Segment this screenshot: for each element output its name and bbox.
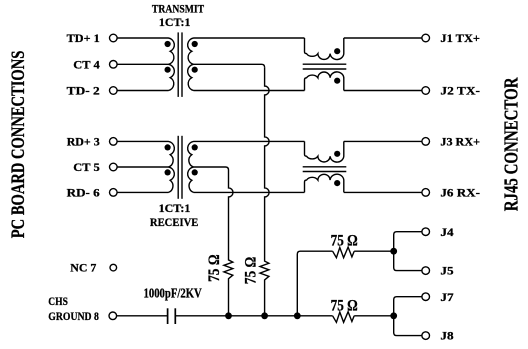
transformer T2 core	[177, 136, 179, 199]
wire pin 1 to transformer	[117, 37, 168, 39]
choke L2 polarity dots	[334, 151, 340, 157]
wire T1 secondary center-tap to vertical node	[194, 64, 265, 67]
junction node R1 / ground bus	[225, 312, 232, 319]
svg-text:TD- 2: TD- 2	[67, 84, 100, 98]
transformer T2 secondary winding	[188, 141, 194, 192]
wire pin 5 to transformer	[117, 166, 168, 168]
vertical wire T1 center-tap to ground with crossover hops and resistor R2	[260, 67, 269, 315]
wire pin 4 to transformer	[117, 63, 168, 65]
wire T1 secondary top to choke L1	[194, 37, 305, 39]
svg-text:J1 TX+: J1 TX+	[440, 31, 480, 45]
svg-text:RD+ 3: RD+ 3	[67, 135, 100, 149]
junction node V3 / ground bus	[294, 312, 301, 319]
pin terminal J5	[422, 267, 430, 275]
svg-text:CT 4: CT 4	[73, 58, 99, 72]
transformer T2 primary winding	[169, 141, 175, 192]
svg-text:J2 TX-: J2 TX-	[440, 84, 480, 98]
choke L2 core	[303, 166, 347, 168]
pin terminal CT 5	[110, 163, 118, 171]
wire pin 6 to transformer	[117, 191, 168, 193]
svg-text:1000pF/2KV: 1000pF/2KV	[144, 285, 202, 300]
wire ground pin to capacitor C1	[117, 315, 167, 317]
choke L2 top winding	[305, 141, 344, 162]
pin terminal TD+ 1	[110, 34, 118, 42]
svg-text:GROUND 8: GROUND 8	[48, 309, 99, 323]
svg-text:1CT:1: 1CT:1	[159, 201, 191, 215]
pin terminal J8	[422, 332, 430, 340]
pin terminal J6	[422, 189, 430, 197]
svg-text:J7: J7	[440, 290, 453, 304]
branch wire to pins J7 and J8	[394, 297, 422, 336]
pin terminal CT 4	[110, 61, 118, 69]
svg-text:1CT:1: 1CT:1	[159, 15, 191, 29]
choke L2 bottom winding	[305, 174, 344, 192]
svg-text:75 Ω: 75 Ω	[243, 257, 260, 285]
svg-text:75 Ω: 75 Ω	[331, 298, 358, 315]
svg-text:J8: J8	[440, 329, 453, 343]
svg-text:RJ45 CONNECTOR: RJ45 CONNECTOR	[501, 77, 523, 211]
capacitor C1 plates	[167, 308, 169, 324]
pin terminal J4	[422, 228, 430, 236]
transformer T1 primary winding	[169, 38, 175, 91]
svg-text:J5: J5	[440, 264, 453, 278]
branch wire to pins J4 and J5	[394, 232, 422, 271]
svg-text:CHS: CHS	[48, 294, 68, 308]
svg-text:RECEIVE: RECEIVE	[150, 215, 199, 229]
pin terminal J7	[422, 293, 430, 301]
svg-text:NC 7: NC 7	[70, 261, 96, 275]
wire T2 secondary center-tap to vertical node	[194, 167, 229, 170]
svg-text:RD- 6: RD- 6	[67, 186, 100, 200]
wire choke to pin J1	[344, 37, 422, 39]
wire choke to pin J3	[344, 140, 422, 142]
wire T2 secondary top to choke L2	[194, 140, 305, 142]
junction node ground bus / J7 / J8	[390, 312, 397, 319]
svg-text:75 Ω: 75 Ω	[331, 233, 358, 250]
wire choke to pin J6	[344, 191, 422, 193]
svg-text:J3 RX+: J3 RX+	[440, 135, 480, 149]
svg-text:TD+ 1: TD+ 1	[67, 31, 100, 45]
svg-text:75 Ω: 75 Ω	[206, 254, 223, 282]
wire T2 secondary bottom to choke L2	[194, 191, 305, 193]
choke L1 top winding	[305, 38, 344, 60]
svg-text:PC BOARD CONNECTIONS: PC BOARD CONNECTIONS	[8, 51, 29, 239]
transformer T1 polarity dots	[165, 41, 171, 47]
transformer T1 core	[177, 32, 179, 97]
svg-text:TRANSMIT: TRANSMIT	[152, 2, 204, 16]
wire corner from V3 to resistor R3 row	[297, 251, 332, 316]
wire capacitor C1 to ground bus	[176, 315, 333, 317]
resistor R3 75 ohm zigzag	[333, 247, 355, 258]
svg-text:J6 RX-: J6 RX-	[440, 186, 480, 200]
junction node R2 / ground bus	[261, 312, 268, 319]
transformer T2 polarity dots	[165, 144, 171, 150]
pin terminal RD+ 3	[110, 138, 118, 146]
wire resistor R4 to junction at branch J7/J8	[354, 315, 394, 317]
choke L1 core	[303, 63, 347, 65]
pin terminal TD- 2	[110, 87, 118, 95]
pin terminal J1	[422, 34, 430, 42]
pin terminal GROUND 8	[109, 312, 117, 320]
wire pin 3 to transformer	[117, 140, 168, 142]
pin terminal J3	[422, 138, 430, 146]
wire choke to pin J2	[344, 90, 422, 92]
pin terminal J2	[422, 87, 430, 95]
junction node at R3 / J4 / J5	[390, 248, 397, 255]
wire T1 secondary bottom to choke L1	[194, 90, 305, 92]
wire pin 2 to transformer	[117, 90, 168, 92]
pin terminal NC 7	[110, 264, 117, 271]
choke L1 bottom winding	[305, 72, 344, 91]
wire resistor R3 to junction J4/J5 branch	[354, 250, 394, 252]
transformer T1 secondary winding	[188, 38, 194, 91]
vertical wire T2 center-tap to ground with crossover hop and resistor R1	[224, 170, 233, 316]
resistor R4 75 ohm (ground bus to J7/J8) zigzag	[333, 312, 355, 323]
svg-text:CT 5: CT 5	[73, 160, 99, 174]
pin terminal RD- 6	[110, 189, 118, 197]
svg-text:J4: J4	[440, 225, 453, 239]
choke L1 polarity dots	[334, 48, 340, 54]
